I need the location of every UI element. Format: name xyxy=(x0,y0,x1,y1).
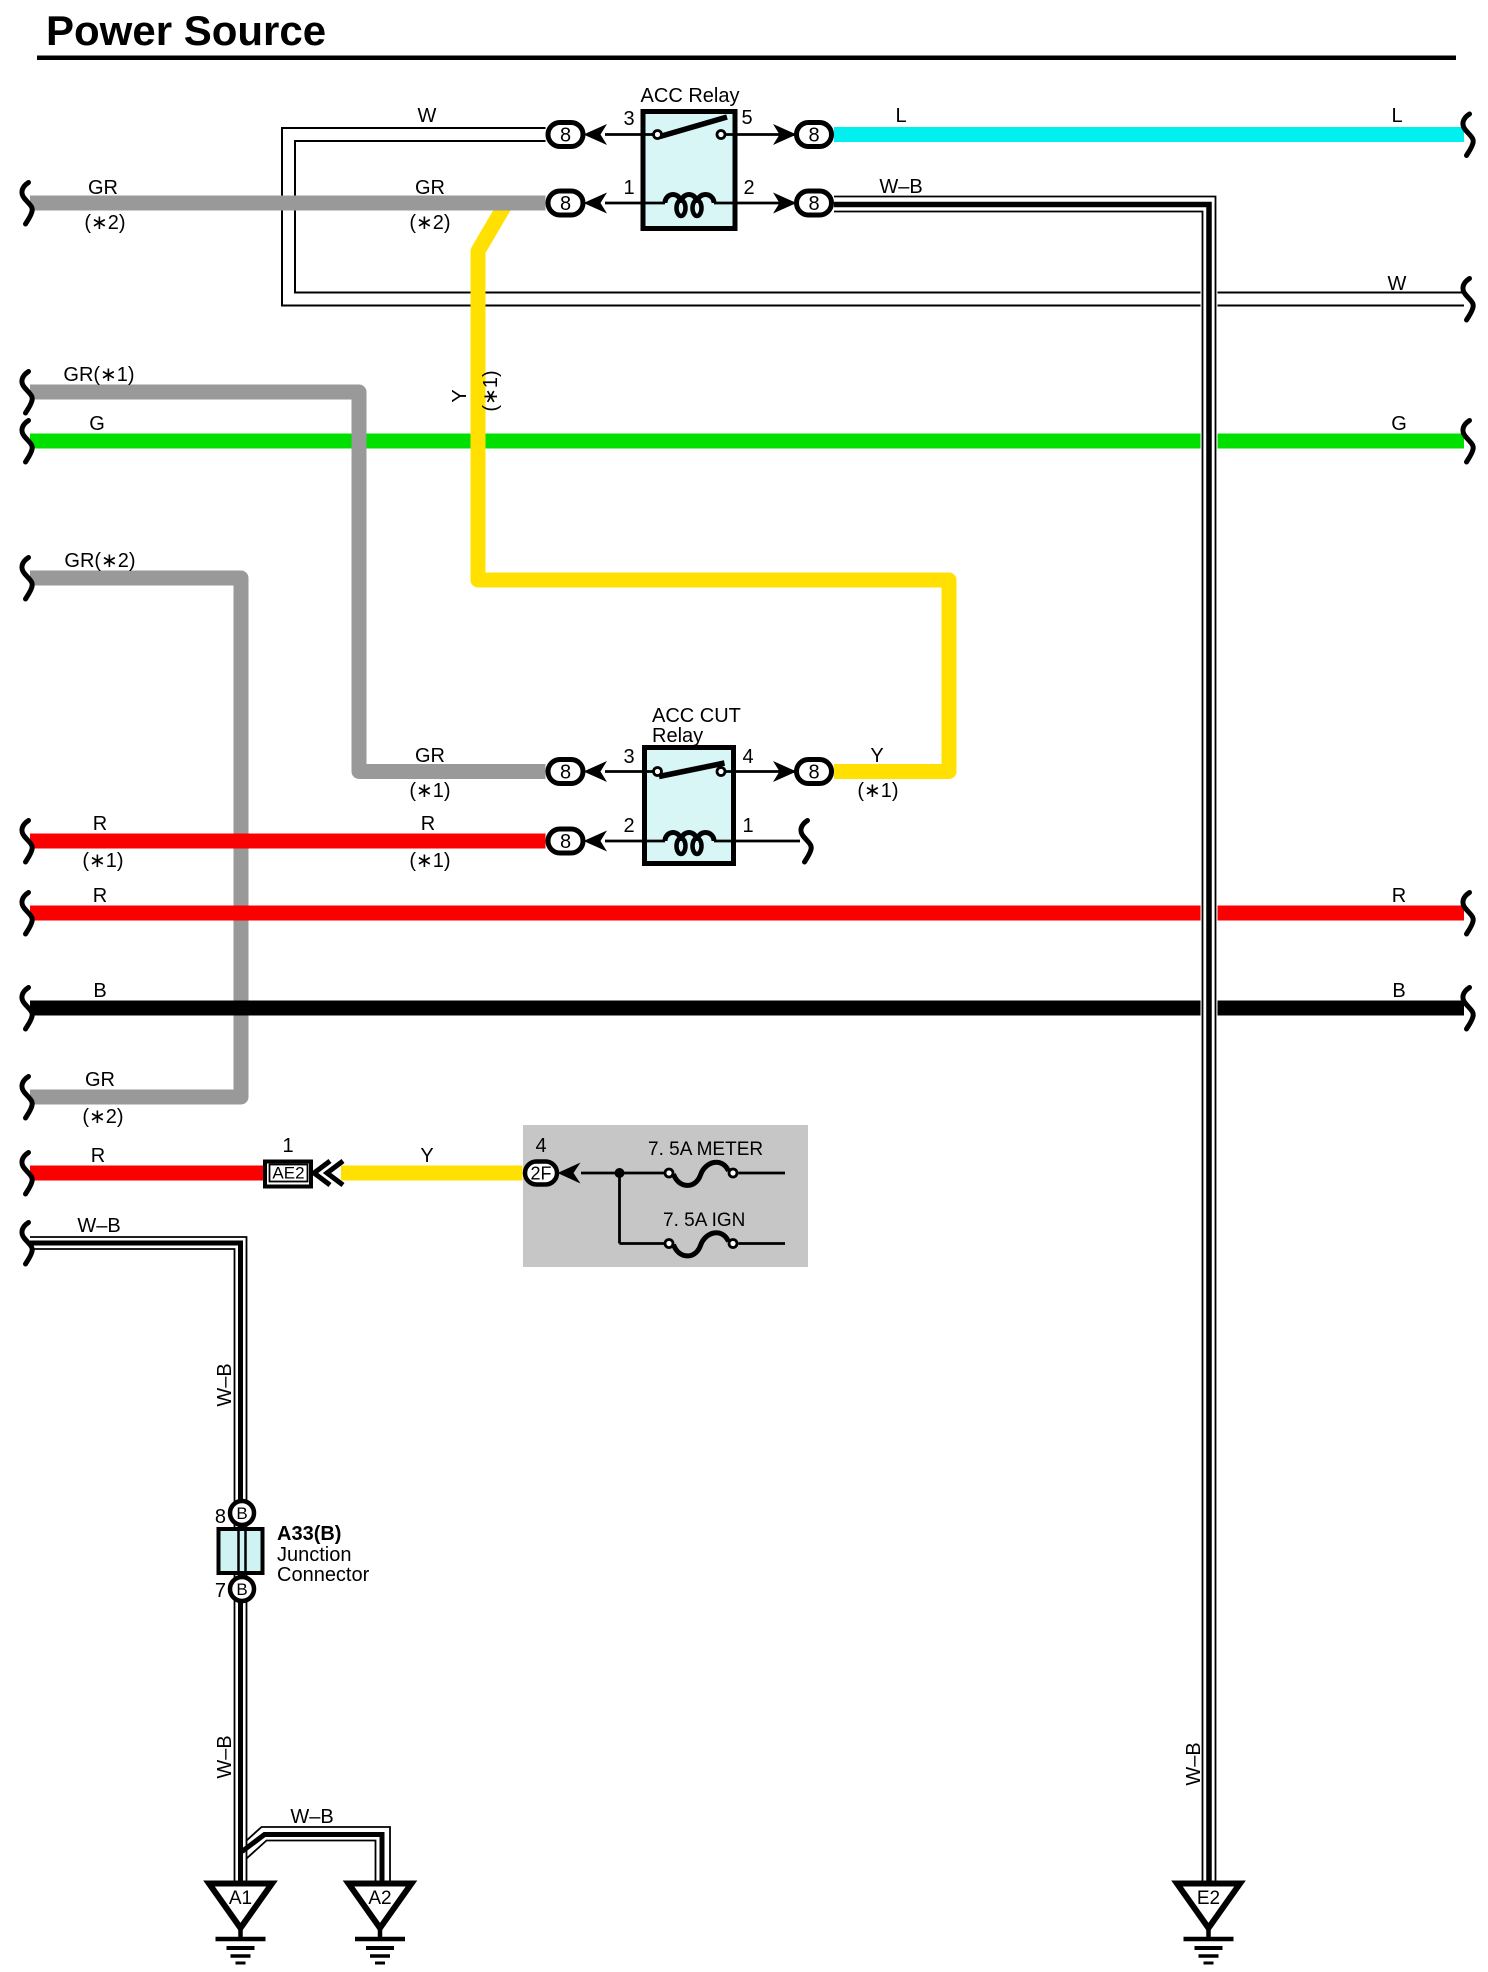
svg-text:(∗1): (∗1) xyxy=(82,850,123,872)
svg-text:G: G xyxy=(89,413,105,435)
svg-text:8: 8 xyxy=(808,193,819,215)
svg-text:(∗1): (∗1) xyxy=(409,780,450,802)
svg-text:(∗1): (∗1) xyxy=(409,850,450,872)
svg-text:4: 4 xyxy=(535,1135,546,1157)
svg-text:Connector: Connector xyxy=(277,1564,370,1586)
svg-text:1: 1 xyxy=(742,815,753,837)
svg-text:Y: Y xyxy=(420,1145,433,1167)
svg-text:Y: Y xyxy=(449,389,471,402)
svg-text:R: R xyxy=(91,1145,105,1167)
svg-text:W–B: W–B xyxy=(214,1363,236,1406)
svg-text:(∗1): (∗1) xyxy=(480,370,502,411)
svg-text:Power Source: Power Source xyxy=(46,7,326,54)
svg-text:8: 8 xyxy=(808,125,819,147)
svg-text:B: B xyxy=(236,1580,247,1599)
svg-text:W: W xyxy=(418,105,437,127)
svg-text:GR(∗2): GR(∗2) xyxy=(64,550,135,572)
svg-text:GR: GR xyxy=(415,177,445,199)
svg-text:1: 1 xyxy=(623,177,634,199)
svg-text:5: 5 xyxy=(741,107,752,129)
svg-text:GR(∗1): GR(∗1) xyxy=(63,364,134,386)
svg-text:Junction: Junction xyxy=(277,1544,352,1566)
svg-text:L: L xyxy=(1391,105,1402,127)
svg-text:W–B: W–B xyxy=(879,176,922,198)
svg-text:2F: 2F xyxy=(530,1164,551,1184)
svg-text:AE2: AE2 xyxy=(272,1164,304,1183)
svg-text:GR: GR xyxy=(85,1069,115,1091)
svg-text:8: 8 xyxy=(560,831,571,853)
svg-text:W–B: W–B xyxy=(290,1806,333,1828)
svg-text:L: L xyxy=(895,105,906,127)
svg-text:3: 3 xyxy=(623,108,634,130)
svg-text:4: 4 xyxy=(742,746,753,768)
svg-text:(∗2): (∗2) xyxy=(409,212,450,234)
svg-text:A1: A1 xyxy=(229,1888,252,1909)
svg-text:8: 8 xyxy=(808,762,819,784)
svg-text:8: 8 xyxy=(560,193,571,215)
svg-text:2: 2 xyxy=(743,177,754,199)
svg-text:A2: A2 xyxy=(368,1888,391,1909)
svg-text:(∗2): (∗2) xyxy=(84,212,125,234)
svg-text:G: G xyxy=(1391,413,1407,435)
svg-text:7: 7 xyxy=(215,1580,226,1602)
svg-text:GR: GR xyxy=(88,177,118,199)
svg-text:W–B: W–B xyxy=(77,1215,120,1237)
svg-text:R: R xyxy=(421,813,435,835)
svg-text:Y: Y xyxy=(870,745,883,767)
svg-text:W–B: W–B xyxy=(1183,1742,1205,1785)
svg-text:1: 1 xyxy=(282,1135,293,1157)
svg-text:B: B xyxy=(1392,980,1405,1002)
svg-text:8: 8 xyxy=(560,762,571,784)
svg-text:W–B: W–B xyxy=(214,1735,236,1778)
svg-text:ACC CUT: ACC CUT xyxy=(652,705,741,727)
svg-text:E2: E2 xyxy=(1197,1888,1220,1909)
svg-text:B: B xyxy=(93,980,106,1002)
svg-text:7. 5A IGN: 7. 5A IGN xyxy=(663,1210,745,1231)
svg-text:2: 2 xyxy=(623,815,634,837)
svg-text:A33(B): A33(B) xyxy=(277,1523,341,1545)
svg-text:8: 8 xyxy=(215,1506,226,1528)
svg-text:GR: GR xyxy=(415,745,445,767)
svg-text:R: R xyxy=(93,885,107,907)
svg-text:(∗2): (∗2) xyxy=(82,1106,123,1128)
svg-text:Relay: Relay xyxy=(652,725,703,747)
svg-text:8: 8 xyxy=(560,125,571,147)
svg-text:B: B xyxy=(236,1504,247,1523)
svg-text:R: R xyxy=(1392,885,1406,907)
svg-text:(∗1): (∗1) xyxy=(857,780,898,802)
svg-text:7. 5A METER: 7. 5A METER xyxy=(648,1139,763,1160)
svg-text:ACC Relay: ACC Relay xyxy=(641,85,740,107)
svg-text:W: W xyxy=(1388,273,1407,295)
svg-text:R: R xyxy=(93,813,107,835)
svg-text:3: 3 xyxy=(623,746,634,768)
